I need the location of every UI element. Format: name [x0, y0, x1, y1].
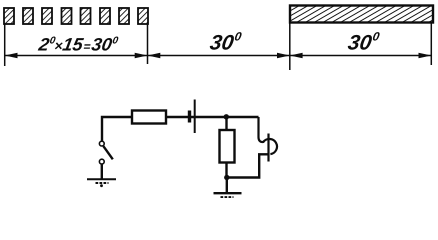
- resistor R2: [220, 130, 235, 163]
- switch S1 lower contact: [99, 159, 104, 164]
- dimension arrow left from 290: [290, 53, 303, 58]
- extension line at 147.5: [147, 22, 149, 64]
- dimension arrow left from 147.5: [148, 53, 161, 58]
- svg-text:300: 300: [208, 30, 243, 55]
- extension line right: [430, 23, 432, 65]
- wire switch to ground: [101, 164, 103, 179]
- wire node A to resistor R2: [225, 117, 227, 130]
- resistor R1: [132, 111, 166, 124]
- extension line left: [4, 24, 6, 66]
- wire resistor R2 to node B: [225, 163, 227, 178]
- wire bottom return: [227, 154, 269, 177]
- node A (junction top): [224, 114, 229, 119]
- battery B1 long plate: [194, 100, 196, 134]
- dimension line: [5, 55, 432, 57]
- svg-text:300: 300: [346, 30, 381, 55]
- dimension arrow left end: [5, 53, 18, 58]
- wire node B to ground: [226, 178, 228, 194]
- wire top horizontal: [102, 117, 259, 141]
- slot segment 6 (hatched square): [100, 8, 110, 24]
- phototube V1 anode rod: [267, 134, 269, 162]
- label 30° middle: [208, 30, 243, 55]
- extension line at 290: [289, 23, 291, 70]
- slot segment 4 (hatched square): [62, 8, 72, 24]
- battery B1 short plate: [188, 111, 191, 123]
- hatched sector bar: [290, 6, 433, 23]
- svg-text:20×15=300: 20×15=300: [36, 35, 119, 55]
- slot segment 1 (hatched square): [4, 8, 14, 24]
- label 30° right: [346, 30, 381, 55]
- label 2°x15=30°: [36, 35, 119, 55]
- phototube V1 cathode and lead: [259, 117, 277, 154]
- node B (junction bottom): [224, 175, 229, 180]
- dimension arrow right toward 147.5: [135, 53, 148, 58]
- dimension arrow right end: [419, 53, 432, 58]
- slot segment 8 (hatched square): [138, 8, 148, 24]
- slot segment 5 (hatched square): [81, 8, 91, 24]
- switch S1 lever: [103, 146, 112, 159]
- ground right: [214, 193, 242, 197]
- switch S1 upper contact: [99, 141, 104, 146]
- slot segment 7 (hatched square): [119, 8, 129, 24]
- ground left: [87, 179, 116, 187]
- slot segment 3 (hatched square): [42, 8, 52, 24]
- dimension arrow right toward 290: [277, 53, 290, 58]
- slot segment 2 (hatched square): [23, 8, 33, 24]
